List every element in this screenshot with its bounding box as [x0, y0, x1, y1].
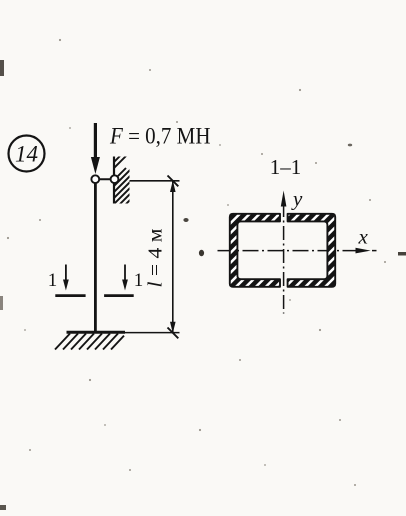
svg-text:1: 1 [134, 270, 144, 291]
svg-text:14: 14 [15, 142, 38, 167]
wall hatching (top support wall) [74, 156, 162, 208]
top extension line [130, 180, 180, 182]
svg-text:l = 4 м: l = 4 м [145, 228, 167, 287]
section mark right: arrow [104, 265, 143, 296]
section left channel [230, 214, 280, 287]
base support line [67, 331, 126, 334]
ground hatching [55, 334, 124, 350]
svg-text:x: x [358, 225, 369, 249]
pin circle right [111, 175, 119, 183]
svg-text:1–1: 1–1 [270, 155, 302, 179]
svg-text:1: 1 [48, 270, 58, 291]
force arrow F [91, 123, 100, 174]
section mark left: arrow [48, 265, 86, 296]
y axis [281, 191, 287, 314]
svg-text:y: y [291, 187, 303, 211]
problem number circle 14 [9, 136, 45, 172]
pin circle left [91, 175, 99, 183]
section plane line right [104, 294, 134, 297]
svg-text:F = 0,7 МН: F = 0,7 МН [109, 124, 210, 150]
pin link [95, 178, 114, 180]
x axis [218, 248, 377, 254]
section right channel [288, 214, 336, 287]
section plane line left [55, 294, 85, 297]
column (vertical bar) [94, 179, 97, 332]
base extension line [125, 332, 180, 334]
dimension line l [168, 176, 179, 339]
